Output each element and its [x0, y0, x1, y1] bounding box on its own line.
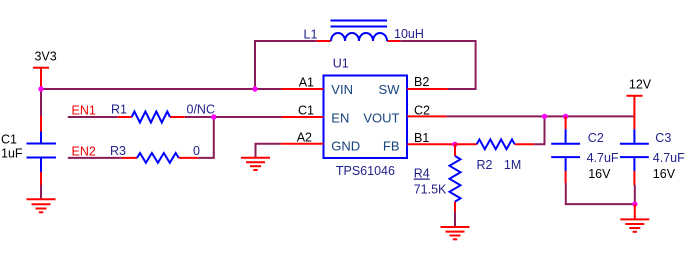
- svg-text:1M: 1M: [504, 158, 521, 172]
- svg-text:12V: 12V: [629, 78, 652, 92]
- svg-text:VIN: VIN: [331, 82, 353, 97]
- wire from VIN node up and right to inductor L1 left lead: [255, 41, 317, 89]
- wire from inductor L1 right lead down to pin B2 SW: [400, 41, 475, 89]
- svg-text:C1: C1: [1, 133, 17, 147]
- svg-text:0/NC: 0/NC: [187, 103, 215, 117]
- svg-text:R1: R1: [111, 102, 127, 116]
- svg-text:VOUT: VOUT: [363, 110, 399, 125]
- resistor R1: [118, 112, 185, 123]
- svg-text:TPS61046: TPS61046: [336, 164, 395, 178]
- wire 3V3 node down to capacitor C1: [40, 89, 42, 116]
- svg-text:16V: 16V: [653, 167, 676, 181]
- junction FB node: [452, 142, 457, 147]
- pin C2 VOUT: [407, 115, 446, 117]
- svg-text:1uF: 1uF: [1, 147, 23, 161]
- junction EN node: [211, 114, 216, 119]
- svg-text:R4: R4: [414, 167, 430, 181]
- svg-text:16V: 16V: [588, 167, 611, 181]
- power symbol 3V3: [33, 68, 49, 89]
- svg-text:SW: SW: [379, 82, 401, 97]
- svg-text:L1: L1: [304, 28, 318, 42]
- wire resistor R1 to EN junction and pin C1: [185, 116, 282, 118]
- junction VIN node at inductor branch: [252, 86, 257, 91]
- svg-text:B1: B1: [414, 131, 429, 145]
- junction VOUT rail at R2 branch: [542, 114, 547, 119]
- svg-text:B2: B2: [414, 75, 429, 89]
- pin A2 GND: [281, 143, 324, 145]
- svg-text:EN2: EN2: [72, 144, 96, 158]
- junction 3V3 node: [38, 86, 43, 91]
- power symbol 12V: [627, 96, 643, 129]
- inductor L1: [317, 21, 401, 42]
- svg-text:4.7uF: 4.7uF: [587, 151, 619, 165]
- svg-text:A1: A1: [299, 76, 314, 90]
- svg-text:U1: U1: [333, 56, 349, 70]
- IC U1 TPS61046 body: [324, 76, 408, 159]
- svg-text:10uH: 10uH: [394, 27, 424, 41]
- wire resistor R3 up to EN junction: [198, 117, 214, 158]
- ground below R4: [441, 227, 470, 239]
- ground below C1: [27, 199, 56, 212]
- wire EN1 net stub to resistor R1: [68, 116, 118, 118]
- wire EN2 net stub to resistor R3: [68, 157, 122, 159]
- capacitor C1: [27, 116, 57, 185]
- svg-text:0: 0: [193, 144, 200, 158]
- resistor R4 vertical: [450, 144, 461, 211]
- junction VOUT rail at C2 branch: [563, 114, 568, 119]
- svg-text:4.7uF: 4.7uF: [653, 151, 685, 165]
- svg-text:C2: C2: [414, 103, 430, 117]
- svg-text:A2: A2: [297, 130, 312, 144]
- pin A1 VIN: [281, 88, 323, 90]
- svg-text:C2: C2: [588, 131, 604, 145]
- capacitor C3: [620, 129, 649, 185]
- svg-text:EN1: EN1: [72, 104, 96, 118]
- pin B1 FB: [407, 143, 455, 145]
- svg-text:R2: R2: [477, 158, 493, 172]
- svg-text:C3: C3: [655, 131, 671, 145]
- capacitor C2: [551, 116, 580, 183]
- ground bottom right: [620, 204, 649, 232]
- pin B2 SW: [407, 88, 448, 90]
- svg-text:C1: C1: [298, 103, 314, 117]
- svg-text:FB: FB: [383, 139, 400, 154]
- wire capacitor C2 bottom to bottom ground rail: [566, 183, 635, 204]
- resistor R3: [122, 153, 199, 163]
- wire pin A2 GND to ground: [256, 144, 281, 158]
- svg-text:EN: EN: [331, 110, 349, 125]
- wire capacitor C1 bottom to ground: [40, 185, 42, 199]
- wire resistor R4 bottom to ground: [454, 212, 456, 227]
- svg-text:71.5K: 71.5K: [414, 183, 447, 197]
- ground below pin A2: [241, 158, 270, 170]
- wire VOUT rail from pin C2 to 12V: [446, 115, 633, 117]
- svg-text:R3: R3: [110, 144, 126, 158]
- svg-text:GND: GND: [331, 139, 360, 154]
- wire capacitor C3 bottom to ground node: [634, 185, 636, 204]
- resistor R2: [455, 139, 534, 149]
- pin C1 EN: [282, 116, 324, 118]
- wire resistor R2 elbow up to VOUT rail: [534, 116, 545, 144]
- wire VIN rail from 3V3 node to pin A1: [41, 88, 282, 90]
- junction bottom ground rail node: [632, 201, 637, 206]
- svg-text:3V3: 3V3: [34, 50, 56, 64]
